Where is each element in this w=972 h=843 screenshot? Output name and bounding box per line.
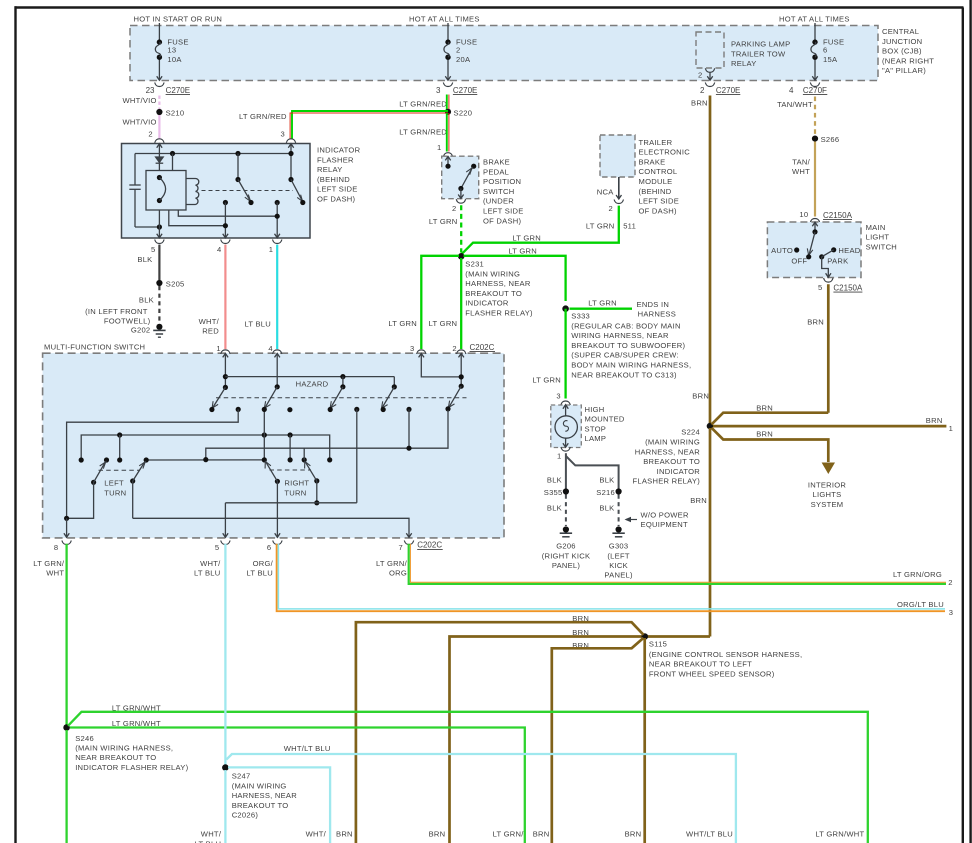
svg-text:TURN: TURN bbox=[104, 488, 126, 497]
svg-text:JUNCTION: JUNCTION bbox=[882, 37, 922, 46]
pin 1 of indicator flasher relay bbox=[269, 240, 282, 255]
gang dashed line bbox=[202, 190, 294, 192]
wire LT GRN/RED fuse2 to S220 bbox=[399, 95, 449, 112]
fuse 2 20A bbox=[444, 23, 477, 80]
svg-text:6: 6 bbox=[823, 45, 827, 54]
central junction box CJB bbox=[130, 26, 934, 81]
svg-text:S355: S355 bbox=[544, 488, 563, 497]
svg-text:LT GRN/RED: LT GRN/RED bbox=[239, 112, 287, 121]
svg-text:AUTO: AUTO bbox=[771, 246, 793, 255]
pin 2 of parking lamp relay bbox=[705, 68, 714, 72]
wire BRN S224 to right edge (1) bbox=[713, 416, 953, 433]
wire BRN bottom-2 to S115 bbox=[429, 628, 642, 843]
svg-text:LT GRN/RED: LT GRN/RED bbox=[399, 99, 447, 108]
svg-text:LT GRN: LT GRN bbox=[532, 376, 561, 385]
svg-text:BODY MAIN WIRING HARNESS,: BODY MAIN WIRING HARNESS, bbox=[571, 361, 691, 370]
svg-text:S115: S115 bbox=[649, 639, 667, 648]
wire LT GRN S231 to S333 bbox=[464, 246, 566, 308]
svg-text:BRN: BRN bbox=[690, 496, 707, 505]
svg-text:LT BLU: LT BLU bbox=[195, 839, 222, 843]
svg-text:S247: S247 bbox=[232, 772, 251, 781]
pin 2 of indicator flasher relay bbox=[148, 129, 164, 143]
svg-text:BRN: BRN bbox=[756, 429, 773, 438]
svg-text:C2150A: C2150A bbox=[823, 211, 853, 220]
wire BLK relay pin 5 to S205 bbox=[137, 245, 159, 280]
svg-text:C2150A: C2150A bbox=[833, 283, 863, 292]
svg-text:OFF: OFF bbox=[791, 256, 807, 265]
note W/O POWER EQUIPMENT bbox=[625, 510, 689, 529]
module trailer electronic brake control module bbox=[600, 135, 690, 215]
svg-text:WHT/: WHT/ bbox=[200, 559, 221, 568]
svg-text:C270E: C270E bbox=[453, 86, 477, 95]
svg-text:WHT/: WHT/ bbox=[201, 830, 222, 839]
svg-text:4: 4 bbox=[217, 245, 221, 254]
svg-text:BRN: BRN bbox=[533, 830, 550, 839]
pin 3 entry arrow bbox=[288, 144, 293, 148]
svg-text:S333: S333 bbox=[571, 311, 590, 320]
wire ORG/LT BLU MFS pin 6 to right edge (3) bbox=[246, 544, 953, 617]
capacitor C1 bbox=[134, 154, 136, 186]
svg-text:BRN: BRN bbox=[336, 830, 353, 839]
splice S115 bbox=[641, 633, 802, 678]
svg-text:511: 511 bbox=[623, 222, 636, 231]
svg-text:2: 2 bbox=[609, 204, 613, 213]
svg-text:(IN LEFT FRONT: (IN LEFT FRONT bbox=[85, 307, 148, 316]
svg-text:ELECTRONIC: ELECTRONIC bbox=[639, 148, 691, 157]
svg-text:MULTI-FUNCTION SWITCH: MULTI-FUNCTION SWITCH bbox=[44, 342, 145, 351]
svg-text:BLK: BLK bbox=[547, 476, 562, 485]
switch S brake pedal position switch bbox=[442, 156, 524, 225]
wire BRN bottom-3 to S115 bbox=[533, 638, 644, 843]
svg-text:MAIN: MAIN bbox=[866, 223, 886, 232]
hazard contact C bbox=[354, 407, 359, 412]
ground G202 bbox=[131, 324, 166, 338]
svg-text:3: 3 bbox=[281, 129, 285, 138]
wire WHT/LT BLU S247 to bottom bbox=[195, 770, 226, 843]
hazard contact B isolated bbox=[287, 407, 292, 412]
svg-text:STOP: STOP bbox=[585, 424, 607, 433]
connector C270E cavity 2 bbox=[700, 83, 740, 95]
pin 1 of MFS bbox=[216, 344, 230, 354]
pin 3 of indicator flasher relay bbox=[281, 129, 296, 143]
svg-text:PANEL): PANEL) bbox=[604, 571, 633, 580]
wire LT GRN/WHT MFS pin 8 to S246 bbox=[33, 544, 66, 725]
svg-text:FLASHER RELAY): FLASHER RELAY) bbox=[465, 309, 533, 318]
wire LT GRN S333 ends in harness bbox=[570, 298, 677, 318]
wire WHT/RED relay pin 4 to MFS pin 1 bbox=[199, 245, 226, 349]
relay internals bbox=[129, 144, 305, 238]
ground G303 bbox=[604, 526, 633, 579]
pin 2 of brake pedal position switch bbox=[452, 199, 466, 213]
wire BRN C270E-2 to S224 bbox=[691, 96, 710, 425]
splice S231 bbox=[458, 253, 533, 318]
svg-text:C270F: C270F bbox=[803, 86, 827, 95]
svg-text:HIGH: HIGH bbox=[585, 405, 605, 414]
svg-text:BREAKOUT TO: BREAKOUT TO bbox=[232, 801, 289, 810]
svg-text:PARK: PARK bbox=[827, 256, 848, 265]
svg-text:23: 23 bbox=[146, 86, 155, 95]
svg-text:(UNDER: (UNDER bbox=[483, 197, 514, 206]
svg-text:4: 4 bbox=[268, 344, 272, 353]
pin 1 entry and hazard blade 1 bbox=[223, 353, 228, 357]
splice S266 bbox=[812, 135, 839, 144]
svg-text:BRN: BRN bbox=[926, 416, 943, 425]
svg-text:15A: 15A bbox=[823, 55, 838, 64]
wire BRN S224 to MLS pin 5 drop bbox=[712, 403, 829, 424]
internal bus H2 bbox=[81, 435, 330, 460]
svg-text:LT GRN: LT GRN bbox=[512, 233, 541, 242]
svg-text:INDICATOR: INDICATOR bbox=[657, 467, 701, 476]
wire BRN S224 down to S115 bbox=[647, 428, 710, 637]
internal bus H4 bbox=[146, 459, 264, 461]
svg-text:RELAY: RELAY bbox=[731, 59, 757, 68]
svg-text:LT GRN/ORG: LT GRN/ORG bbox=[893, 570, 942, 579]
svg-text:WHT: WHT bbox=[792, 167, 810, 176]
svg-text:LT GRN: LT GRN bbox=[429, 217, 458, 226]
MFS internals bbox=[64, 353, 467, 537]
svg-text:G303: G303 bbox=[609, 542, 629, 551]
svg-text:FOOTWELL): FOOTWELL) bbox=[104, 316, 151, 325]
svg-text:WHT/: WHT/ bbox=[306, 830, 327, 839]
svg-text:BRN: BRN bbox=[625, 830, 642, 839]
svg-text:BRN: BRN bbox=[756, 403, 773, 412]
pin 4 of indicator flasher relay bbox=[217, 240, 230, 255]
svg-text:NEAR BREAKOUT TO C313): NEAR BREAKOUT TO C313) bbox=[571, 370, 677, 379]
svg-text:2: 2 bbox=[700, 86, 705, 95]
pin 5 of indicator flasher relay bbox=[151, 240, 164, 255]
svg-text:S224: S224 bbox=[681, 428, 700, 437]
svg-text:HARNESS: HARNESS bbox=[638, 309, 676, 318]
svg-text:5: 5 bbox=[151, 245, 155, 254]
pin 6 of MFS bbox=[267, 541, 282, 553]
svg-text:C270E: C270E bbox=[166, 86, 190, 95]
svg-text:(RIGHT KICK: (RIGHT KICK bbox=[542, 551, 591, 560]
svg-text:BLK: BLK bbox=[599, 504, 614, 513]
hazard blade 4 pivot bbox=[392, 384, 397, 389]
svg-text:LT BLU: LT BLU bbox=[194, 569, 221, 578]
svg-text:10: 10 bbox=[799, 210, 808, 219]
svg-text:(LEFT: (LEFT bbox=[607, 551, 629, 560]
svg-text:LT BLU: LT BLU bbox=[246, 569, 273, 578]
svg-text:SYSTEM: SYSTEM bbox=[811, 500, 844, 509]
svg-text:(SUPER CAB/SUPER CREW:: (SUPER CAB/SUPER CREW: bbox=[571, 351, 678, 360]
svg-text:SWITCH: SWITCH bbox=[483, 187, 514, 196]
svg-text:BRN: BRN bbox=[429, 830, 446, 839]
lower link A bbox=[178, 210, 277, 216]
pin 4 of MFS bbox=[268, 344, 282, 354]
svg-text:S266: S266 bbox=[821, 135, 840, 144]
svg-text:SWITCH: SWITCH bbox=[866, 242, 897, 251]
hazard contact A bbox=[236, 407, 241, 412]
svg-text:ORG/LT BLU: ORG/LT BLU bbox=[897, 600, 944, 609]
wire LT GRN 511 trailer module to S231 bbox=[462, 206, 636, 254]
svg-text:PARKING LAMP: PARKING LAMP bbox=[731, 40, 790, 49]
svg-text:WHT/: WHT/ bbox=[199, 317, 220, 326]
svg-text:LEFT SIDE: LEFT SIDE bbox=[483, 207, 524, 216]
svg-text:BOX (CJB): BOX (CJB) bbox=[882, 47, 922, 56]
wire WHT/LT BLU MFS pin 5 to S247 bbox=[194, 544, 225, 765]
svg-text:2: 2 bbox=[948, 578, 952, 587]
svg-text:ORG: ORG bbox=[389, 569, 407, 578]
svg-text:1: 1 bbox=[949, 424, 953, 433]
svg-text:BLK: BLK bbox=[137, 255, 152, 264]
wire WHT/VIO S210 to relay pin 2 bbox=[122, 115, 159, 139]
svg-text:BREAKOUT TO SUBWOOFER): BREAKOUT TO SUBWOOFER) bbox=[571, 341, 685, 350]
wire WHT/LT BLU S247 branch to bottom at 330 bbox=[228, 767, 330, 843]
switch contact S1 bbox=[235, 151, 240, 156]
splice S210 bbox=[156, 108, 184, 117]
wire WHT/VIO C270E-23 to S210 (dashed) bbox=[122, 96, 159, 110]
svg-text:WHT/VIO: WHT/VIO bbox=[122, 96, 156, 105]
svg-text:3: 3 bbox=[949, 608, 953, 617]
svg-text:MOUNTED: MOUNTED bbox=[585, 415, 625, 424]
label LEFT TURN bbox=[104, 479, 126, 498]
pin 2 of MFS / connector C202C bbox=[452, 343, 495, 354]
svg-text:ORG/: ORG/ bbox=[253, 559, 274, 568]
svg-text:HARNESS, NEAR: HARNESS, NEAR bbox=[232, 791, 298, 800]
svg-text:5: 5 bbox=[818, 283, 822, 292]
svg-text:OF DASH): OF DASH) bbox=[639, 206, 678, 215]
svg-text:RED: RED bbox=[202, 327, 219, 336]
right turn switch bbox=[275, 479, 280, 484]
svg-text:(BEHIND: (BEHIND bbox=[639, 187, 672, 196]
svg-text:(MAIN WIRING: (MAIN WIRING bbox=[232, 781, 287, 790]
wire LT GRN S231 to MFS pin 2 bbox=[429, 258, 462, 349]
svg-text:OF DASH): OF DASH) bbox=[317, 195, 356, 204]
wire BLK S205 to G202 (dashed) bbox=[85, 286, 159, 325]
svg-text:3: 3 bbox=[556, 391, 560, 400]
splice S224 bbox=[632, 423, 713, 486]
svg-text:HOT IN START OR RUN: HOT IN START OR RUN bbox=[134, 15, 223, 24]
svg-text:3: 3 bbox=[410, 344, 414, 353]
svg-text:LT BLU: LT BLU bbox=[244, 320, 271, 329]
svg-text:LIGHTS: LIGHTS bbox=[813, 490, 842, 499]
svg-text:BRN: BRN bbox=[691, 98, 708, 107]
pin 1 of brake pedal position switch bbox=[437, 143, 453, 157]
svg-text:LT GRN/: LT GRN/ bbox=[493, 830, 525, 839]
svg-text:LEFT SIDE: LEFT SIDE bbox=[317, 185, 358, 194]
svg-text:C202C: C202C bbox=[417, 541, 442, 550]
wire LT GRN/ORG MFS pin 7 to right edge (2) bbox=[376, 544, 953, 588]
svg-text:TAN/: TAN/ bbox=[792, 157, 810, 166]
svg-text:HAZARD: HAZARD bbox=[296, 380, 329, 389]
wire BRN main light switch pin 5 down to S224 line bbox=[807, 284, 828, 413]
wire LT GRN/WHT S246 lower branch to bottom bbox=[70, 719, 525, 843]
svg-text:LIGHT: LIGHT bbox=[866, 233, 890, 242]
coil frame bbox=[146, 171, 186, 211]
svg-text:13: 13 bbox=[167, 45, 176, 54]
svg-text:LT GRN/RED: LT GRN/RED bbox=[399, 127, 447, 136]
svg-text:BLK: BLK bbox=[139, 295, 154, 304]
svg-text:LT GRN/: LT GRN/ bbox=[376, 559, 408, 568]
svg-text:S220: S220 bbox=[454, 109, 473, 118]
wire LT GRN/WHT S246 to bottom bbox=[65, 730, 67, 843]
svg-text:G202: G202 bbox=[131, 326, 151, 335]
wire LT GRN S231 to MFS pin 3 bbox=[388, 256, 459, 349]
svg-text:S205: S205 bbox=[166, 280, 185, 289]
pin 2 entry arrow bbox=[157, 144, 162, 148]
relay U1 indicator flasher relay bbox=[122, 144, 361, 239]
switch main light switch bbox=[767, 222, 897, 278]
pin 5 of main light switch / connector C2150A bbox=[818, 278, 863, 292]
pin 3 of MFS bbox=[410, 344, 426, 354]
connector C270E cavity 3 bbox=[436, 83, 477, 95]
svg-text:LT GRN/: LT GRN/ bbox=[33, 559, 65, 568]
svg-text:3: 3 bbox=[436, 86, 441, 95]
svg-text:HARNESS, NEAR: HARNESS, NEAR bbox=[635, 447, 701, 456]
svg-text:LT GRN: LT GRN bbox=[508, 246, 537, 255]
splice S355 bbox=[544, 488, 569, 497]
svg-text:BREAKOUT TO: BREAKOUT TO bbox=[465, 289, 522, 298]
pin 2 connector of trailer module bbox=[609, 200, 624, 213]
diode CR1 bbox=[156, 157, 164, 162]
svg-text:5: 5 bbox=[215, 543, 219, 552]
pin 5 of MFS bbox=[215, 541, 230, 553]
svg-text:NEAR BREAKOUT TO LEFT: NEAR BREAKOUT TO LEFT bbox=[649, 660, 752, 669]
svg-text:MODULE: MODULE bbox=[639, 177, 673, 186]
svg-text:INDICATOR FLASHER RELAY): INDICATOR FLASHER RELAY) bbox=[75, 763, 188, 772]
switch contact S2 bbox=[288, 151, 293, 156]
internal bus H3 bbox=[206, 410, 448, 460]
hazard contact D bbox=[406, 407, 411, 412]
svg-text:1: 1 bbox=[437, 143, 441, 152]
wire LT GRN/RED S220 to relay pin 3 (horizontal + corner) bbox=[239, 111, 448, 139]
svg-text:TURN: TURN bbox=[284, 488, 306, 497]
svg-text:NCA: NCA bbox=[597, 187, 614, 196]
connector C270E cavity 23 bbox=[146, 83, 190, 95]
svg-text:HARNESS, NEAR: HARNESS, NEAR bbox=[465, 279, 531, 288]
svg-text:BRAKE: BRAKE bbox=[639, 157, 666, 166]
svg-text:CENTRAL: CENTRAL bbox=[882, 27, 919, 36]
pin 8 of MFS bbox=[54, 541, 71, 553]
svg-text:(BEHIND: (BEHIND bbox=[317, 175, 350, 184]
svg-text:S216: S216 bbox=[596, 488, 615, 497]
wire LT BLU relay pin 1 to MFS pin 4 bbox=[244, 245, 277, 349]
svg-text:BRAKE: BRAKE bbox=[483, 158, 510, 167]
svg-text:WHT/LT BLU: WHT/LT BLU bbox=[284, 744, 331, 753]
fuse 6 15A bbox=[811, 23, 844, 80]
splice S205 bbox=[156, 280, 184, 289]
pin 5 drop bbox=[224, 503, 226, 538]
svg-text:INDICATOR: INDICATOR bbox=[317, 146, 361, 155]
internal bus H1 bbox=[225, 376, 394, 378]
svg-text:BRN: BRN bbox=[692, 392, 709, 401]
lamp high mounted stop lamp bbox=[551, 405, 625, 448]
svg-text:G206: G206 bbox=[556, 542, 576, 551]
wire BLK stop lamp pin 1 branch to S216 bbox=[566, 456, 619, 489]
svg-text:OF DASH): OF DASH) bbox=[483, 216, 522, 225]
splice S246 bbox=[63, 724, 188, 772]
svg-text:1: 1 bbox=[216, 344, 220, 353]
hazard blade 3 bbox=[340, 374, 345, 379]
pin 10 of main light switch / connector C2150A bbox=[799, 210, 852, 223]
pin 4 entry and hazard blade 2 bbox=[275, 353, 280, 357]
svg-text:W/O POWER: W/O POWER bbox=[641, 510, 689, 519]
splice S333 bbox=[562, 305, 691, 379]
svg-text:LAMP: LAMP bbox=[585, 434, 607, 443]
connector C270F cavity 4 bbox=[789, 83, 827, 95]
splice S247 bbox=[222, 764, 297, 819]
svg-text:EQUIPMENT: EQUIPMENT bbox=[641, 520, 689, 529]
svg-text:PANEL): PANEL) bbox=[552, 561, 581, 570]
svg-text:LT GRN: LT GRN bbox=[586, 222, 615, 231]
wire LT GRN/RED S220 to brake pedal switch pin 1 bbox=[399, 113, 449, 152]
svg-text:WHT/VIO: WHT/VIO bbox=[122, 117, 156, 126]
pin 8 exit arrow bbox=[66, 518, 68, 537]
wire BLK S216 to G303 (dashed) bbox=[599, 495, 618, 527]
svg-text:RIGHT: RIGHT bbox=[284, 479, 309, 488]
pin 3 of high mounted stop lamp bbox=[556, 391, 570, 405]
svg-text:(NEAR RIGHT: (NEAR RIGHT bbox=[882, 56, 934, 65]
svg-text:2: 2 bbox=[456, 45, 460, 54]
svg-text:(ENGINE CONTROL SENSOR HARNESS: (ENGINE CONTROL SENSOR HARNESS, bbox=[649, 650, 802, 659]
pin 3 entry bbox=[419, 353, 424, 357]
svg-text:C270E: C270E bbox=[716, 86, 740, 95]
wire TAN/WHT C270F-4 to S266 (dashed) bbox=[777, 97, 815, 136]
switch multi-function switch bbox=[43, 342, 504, 538]
coil to pin 5 bbox=[158, 210, 160, 238]
wire BRN S115 to bottom bbox=[625, 638, 645, 843]
contact row dots bbox=[79, 457, 84, 462]
svg-text:LT GRN: LT GRN bbox=[429, 319, 458, 328]
svg-text:C202C: C202C bbox=[470, 343, 495, 352]
wire LT GRN/WHT S246 upper branch to bottom right bbox=[68, 703, 868, 843]
pin 7 of MFS / connector C202C bbox=[399, 541, 443, 553]
svg-text:S246: S246 bbox=[75, 734, 94, 743]
fuse 13 10A bbox=[155, 23, 188, 80]
svg-text:LT GRN: LT GRN bbox=[588, 298, 617, 307]
svg-text:BRN: BRN bbox=[807, 317, 824, 326]
svg-text:(MAIN WIRING: (MAIN WIRING bbox=[465, 269, 520, 278]
splice S220 bbox=[445, 109, 472, 118]
svg-text:NEAR BREAKOUT TO: NEAR BREAKOUT TO bbox=[75, 753, 156, 762]
wire NCA trailer module to pin 2 bbox=[597, 177, 622, 199]
svg-text:C2026): C2026) bbox=[232, 811, 259, 820]
pin 2 entry and hazard blade 5 bbox=[459, 353, 464, 357]
armature arc bbox=[157, 175, 162, 180]
svg-text:HEAD: HEAD bbox=[838, 246, 860, 255]
internal link H6 bbox=[225, 502, 356, 504]
svg-text:FLASHER: FLASHER bbox=[317, 155, 354, 164]
ground G206 bbox=[542, 526, 591, 570]
svg-text:WIRING HARNESS, NEAR: WIRING HARNESS, NEAR bbox=[571, 331, 669, 340]
svg-text:2: 2 bbox=[698, 71, 702, 80]
wire WHT/LT BLU S247 upper branch to bottom bbox=[226, 744, 736, 843]
pin 1 of high mounted stop lamp bbox=[557, 447, 570, 460]
svg-text:KICK: KICK bbox=[609, 561, 628, 570]
svg-text:TRAILER: TRAILER bbox=[639, 138, 673, 147]
svg-text:8: 8 bbox=[54, 543, 58, 552]
label RIGHT TURN bbox=[284, 479, 309, 498]
svg-text:PEDAL: PEDAL bbox=[483, 167, 509, 176]
wire BLK S355 to G206 (dashed) bbox=[547, 495, 566, 527]
svg-text:WHT/LT BLU: WHT/LT BLU bbox=[686, 830, 733, 839]
svg-text:20A: 20A bbox=[456, 55, 471, 64]
svg-text:LT GRN: LT GRN bbox=[388, 319, 417, 328]
svg-text:TRAILER TOW: TRAILER TOW bbox=[731, 49, 786, 58]
svg-text:4: 4 bbox=[789, 86, 794, 95]
svg-text:1: 1 bbox=[557, 451, 561, 460]
wire LT GRN brake pedal switch pin 2 to S231 (dashed) bbox=[429, 205, 461, 252]
internal bus H5 lower bbox=[133, 518, 409, 537]
svg-text:LEFT SIDE: LEFT SIDE bbox=[639, 197, 680, 206]
svg-text:S231: S231 bbox=[465, 260, 484, 269]
wire BRN bottom-1 to S115 bbox=[336, 614, 643, 843]
svg-text:FRONT WHEEL SPEED SENSOR): FRONT WHEEL SPEED SENSOR) bbox=[649, 669, 775, 678]
svg-text:HOT AT ALL TIMES: HOT AT ALL TIMES bbox=[409, 15, 480, 24]
svg-text:1: 1 bbox=[269, 245, 273, 254]
svg-text:10A: 10A bbox=[167, 55, 182, 64]
